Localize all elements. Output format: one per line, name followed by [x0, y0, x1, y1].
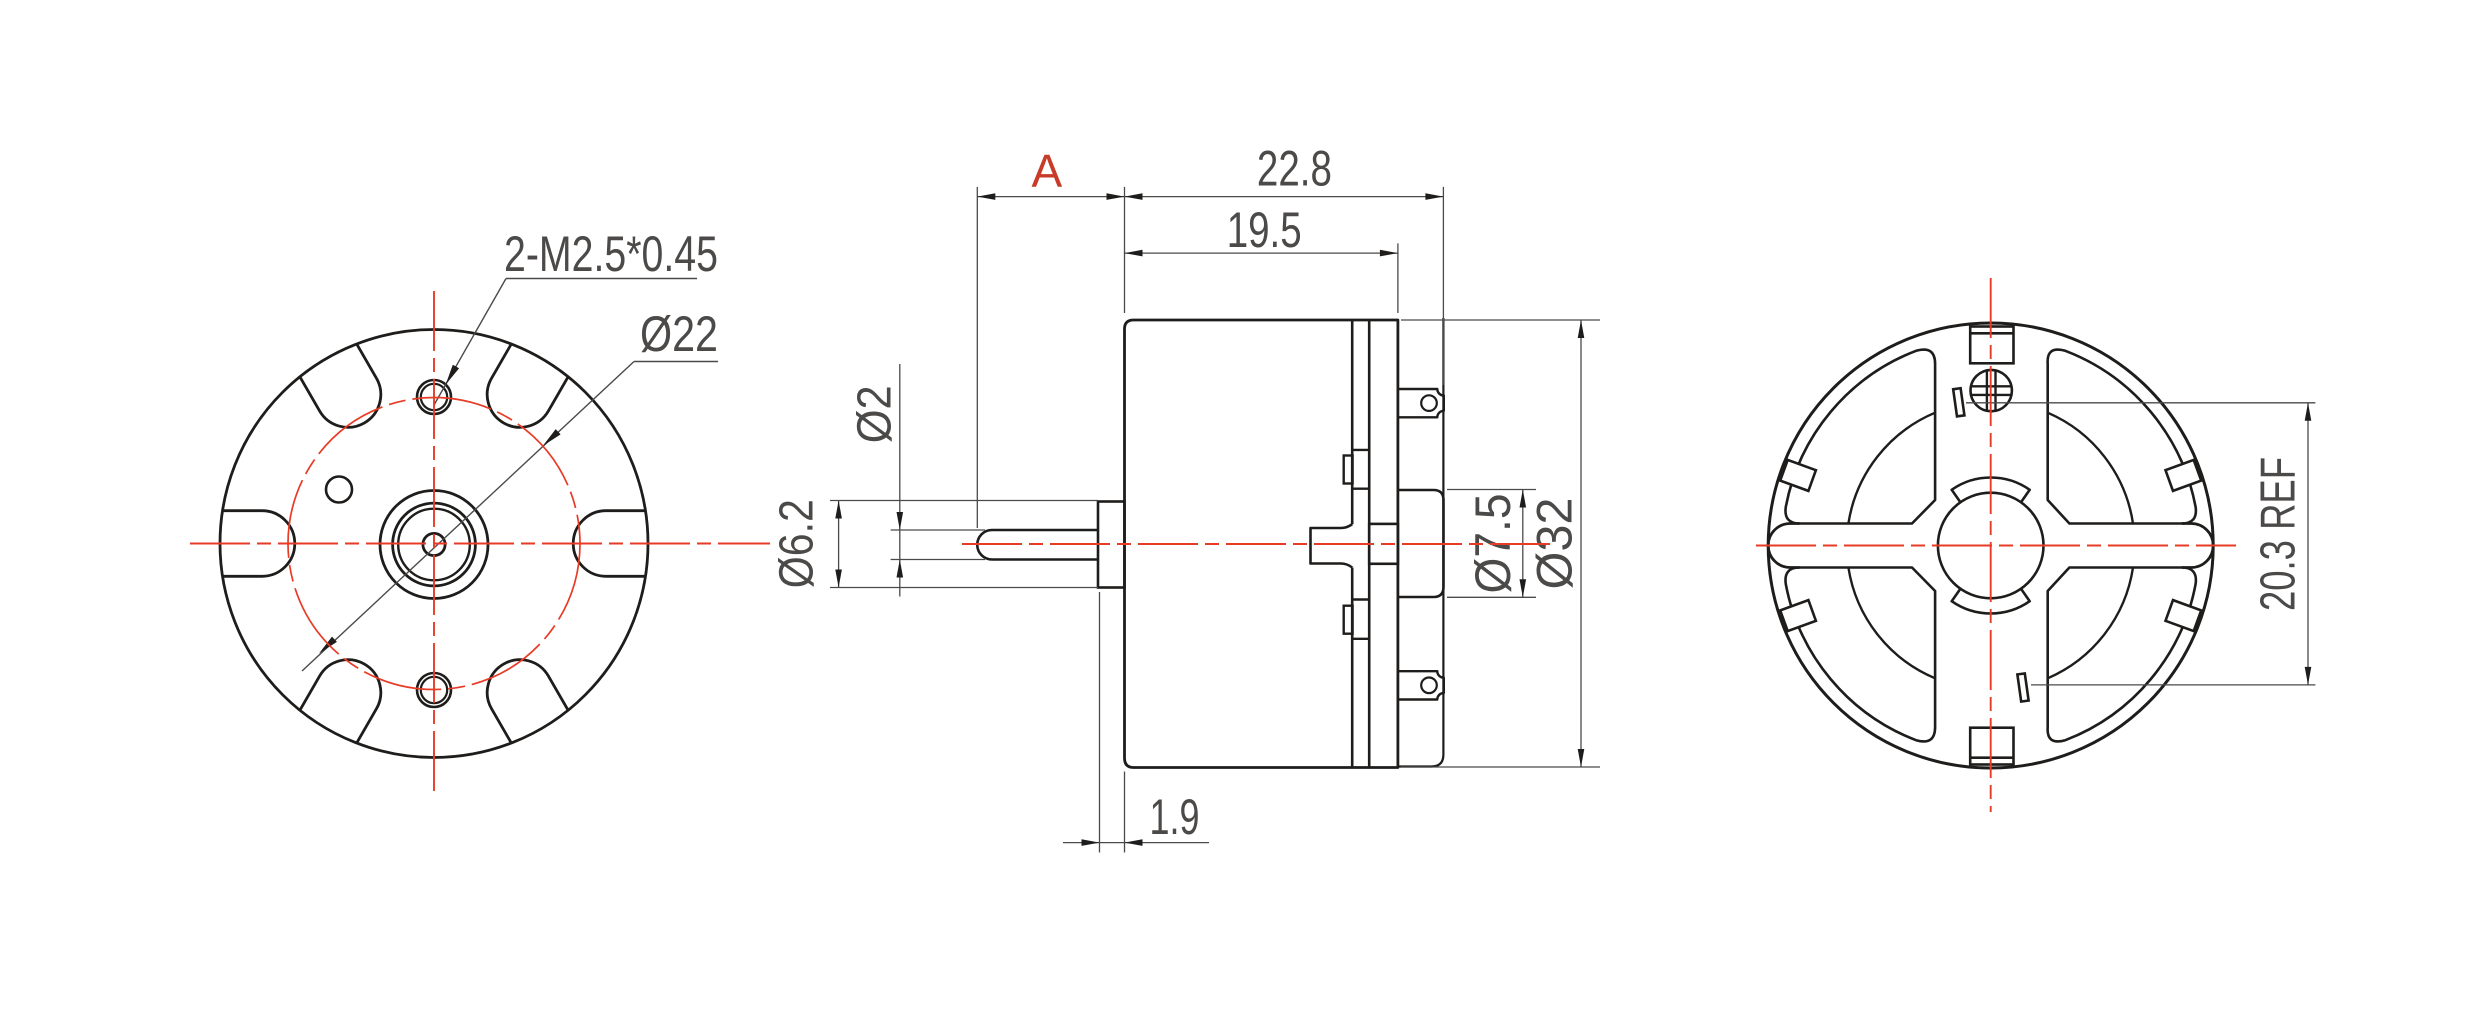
svg-text:2-M2.5*0.45: 2-M2.5*0.45	[504, 226, 718, 282]
svg-text:Ø22: Ø22	[640, 306, 718, 362]
svg-text:1.9: 1.9	[1150, 789, 1200, 845]
svg-text:19.5: 19.5	[1227, 202, 1302, 258]
svg-text:A: A	[1031, 145, 1062, 197]
svg-text:Ø6.2: Ø6.2	[771, 499, 824, 588]
svg-text:22.8: 22.8	[1257, 141, 1332, 197]
svg-text:20.3 REF: 20.3 REF	[2252, 457, 2306, 611]
svg-text:Ø2: Ø2	[849, 385, 902, 443]
